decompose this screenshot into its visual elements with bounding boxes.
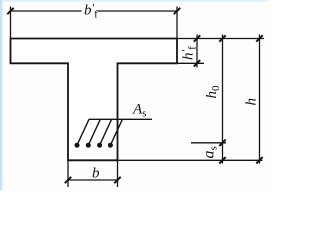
rebar dot 4 xyxy=(108,143,113,148)
extension line left of b'f dimension xyxy=(10,7,12,39)
tick b right xyxy=(114,177,120,183)
rebar dot 2 xyxy=(86,143,91,148)
tick b'f right xyxy=(174,8,180,14)
As leader line xyxy=(89,118,152,120)
tick b left xyxy=(65,177,71,183)
hatch line 3 xyxy=(100,119,112,145)
tick as bottom xyxy=(219,157,225,163)
b extension line left xyxy=(67,160,69,187)
tick b'f left xyxy=(7,8,13,14)
top blue edge band xyxy=(0,0,268,2)
tick h0 bottom xyxy=(219,140,225,146)
flange bottom extension line xyxy=(177,62,204,64)
hatch line 2 xyxy=(88,119,100,145)
tick h'f top xyxy=(194,35,200,41)
hatch line 4 xyxy=(110,119,122,145)
flange top extension line xyxy=(177,38,264,40)
dimension line h'f xyxy=(196,35,198,68)
svg-text:h: h xyxy=(244,98,260,106)
left blue edge band xyxy=(0,0,2,190)
b extension line right xyxy=(117,160,119,187)
dimension line h0 xyxy=(222,35,224,164)
dimension line b'f right part xyxy=(98,10,178,12)
hatch line 1 xyxy=(77,119,89,145)
rebar dot 3 xyxy=(97,143,102,148)
dimension line h xyxy=(259,35,261,164)
dimension line b xyxy=(68,179,118,181)
extension line right of b'f dimension xyxy=(176,7,178,39)
tick h top xyxy=(256,35,262,41)
extension line as level xyxy=(191,142,226,144)
T-beam outline xyxy=(11,39,178,161)
svg-text:b: b xyxy=(92,166,100,182)
rebar dot 1 xyxy=(75,143,80,148)
tick h bottom xyxy=(256,157,262,163)
beam bottom extension line xyxy=(118,159,263,161)
tick h0 top xyxy=(219,35,225,41)
dimension line b'f left part xyxy=(11,10,82,12)
tick h'f bottom xyxy=(194,60,200,66)
